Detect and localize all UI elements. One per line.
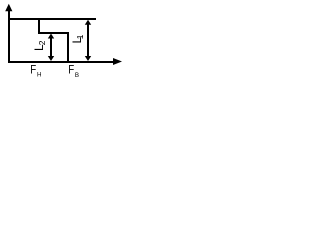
svg-text:F: F bbox=[30, 64, 36, 77]
svg-text:2: 2 bbox=[37, 40, 47, 45]
svg-text:B: B bbox=[75, 72, 79, 79]
svg-text:H: H bbox=[37, 72, 41, 79]
svg-text:F: F bbox=[68, 64, 74, 77]
svg-text:1: 1 bbox=[75, 34, 85, 39]
